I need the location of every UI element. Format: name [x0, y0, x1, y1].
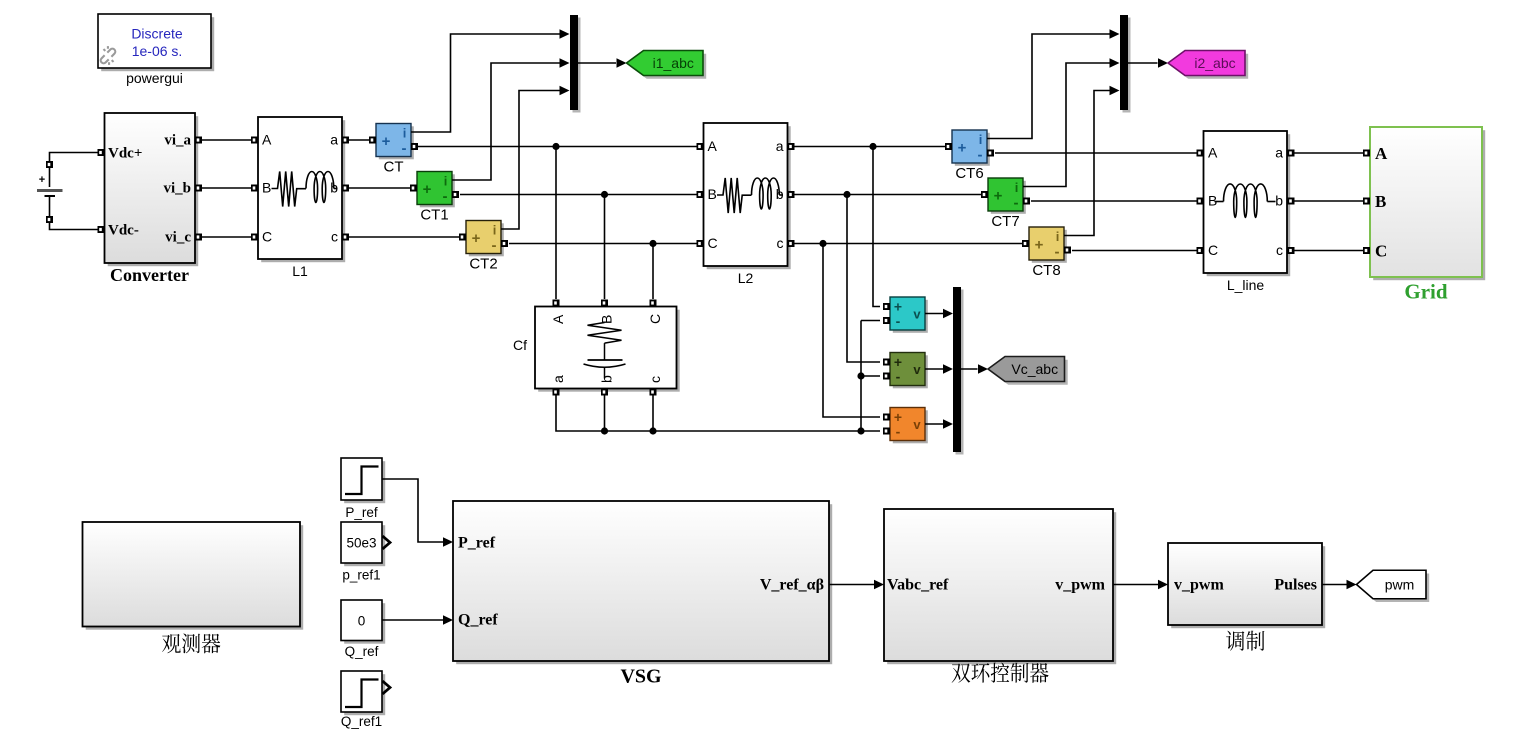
wire tap C down to Cf — [652, 244, 654, 300]
wire Q_ref to VSG — [382, 619, 444, 621]
wire Vb tap to V2+ — [847, 195, 880, 363]
svg-text:v: v — [913, 417, 921, 432]
converter U1 — [108, 116, 199, 266]
current sensor CT2 — [469, 223, 504, 256]
observer subsystem — [86, 525, 304, 630]
svg-text:-: - — [402, 140, 407, 157]
svg-text:i1_abc: i1_abc — [653, 55, 694, 71]
svg-text:c: c — [331, 229, 338, 245]
svg-text:i: i — [493, 223, 497, 238]
observer label GUANCEQI — [162, 634, 181, 653]
svg-text:L_line: L_line — [1227, 277, 1265, 293]
wire L1c to CT2 — [349, 236, 459, 238]
svg-text:-: - — [896, 424, 901, 440]
node neutral c — [649, 427, 656, 434]
svg-text:B: B — [1208, 193, 1217, 209]
svg-text:-: - — [1055, 244, 1060, 261]
svg-text:VSG: VSG — [620, 666, 662, 688]
wire CT7 out to L_line — [1031, 200, 1197, 202]
voltage sensor V2 — [893, 355, 928, 388]
current sensor CT — [379, 126, 414, 159]
node Va tap — [869, 143, 876, 150]
svg-text:A: A — [262, 132, 272, 148]
svg-text:v_pwm: v_pwm — [1174, 577, 1224, 594]
goto tag pwm — [1360, 573, 1430, 602]
svg-text:-: - — [896, 313, 901, 329]
wire Va tap to V1+ — [873, 147, 880, 307]
mux M2 — [1123, 18, 1131, 113]
svg-text:CT: CT — [384, 159, 404, 176]
wire Vc tap to V3+ — [823, 244, 880, 418]
svg-text:c: c — [777, 235, 784, 251]
svg-text:Q_ref1: Q_ref1 — [341, 714, 382, 729]
svg-text:v: v — [913, 362, 921, 377]
node Vb tap — [843, 191, 850, 198]
inductor L_line — [1207, 134, 1291, 276]
wire L1b to CT1 — [349, 187, 410, 189]
svg-text:1e-06 s.: 1e-06 s. — [132, 43, 183, 59]
svg-text:Cf: Cf — [513, 337, 527, 353]
svg-text:+: + — [382, 133, 391, 150]
svg-text:c: c — [1276, 242, 1283, 258]
svg-text:+: + — [423, 181, 432, 198]
wire vi_c to L1 — [202, 236, 251, 238]
svg-text:-: - — [896, 369, 901, 385]
mux M3 — [956, 290, 964, 455]
svg-text:i: i — [403, 126, 407, 141]
wire Vdc- to converter — [50, 219, 98, 230]
svg-text:b: b — [599, 375, 615, 383]
wire L1a to CT — [349, 139, 369, 141]
battery + node — [46, 161, 53, 168]
svg-text:A: A — [1208, 145, 1218, 161]
modulator label TIAOZHI — [1226, 631, 1244, 651]
node Vc tap — [819, 240, 826, 247]
svg-text:A: A — [708, 138, 718, 154]
inductor L1 — [261, 120, 345, 262]
svg-text:C: C — [1208, 242, 1218, 258]
wire L_line c to Grid — [1295, 250, 1364, 252]
current sensor CT1 — [420, 174, 455, 207]
wire L_line a to Grid — [1295, 152, 1364, 154]
inductor L2 — [707, 126, 791, 269]
svg-text:Q_ref: Q_ref — [345, 644, 379, 659]
controller subsystem — [887, 512, 1116, 664]
svg-text:-: - — [492, 237, 497, 254]
controller label SHUANGHUAN — [952, 664, 971, 683]
svg-text:p_ref1: p_ref1 — [342, 568, 380, 583]
svg-text:A: A — [1375, 144, 1388, 163]
svg-text:L2: L2 — [738, 270, 754, 286]
svg-text:vi_b: vi_b — [163, 181, 191, 197]
svg-text:+: + — [958, 140, 967, 157]
node phase A tap — [552, 143, 559, 150]
svg-text:C: C — [647, 314, 663, 324]
svg-text:a: a — [776, 138, 784, 154]
svg-text:Vabc_ref: Vabc_ref — [887, 577, 949, 594]
constant p_ref1 — [344, 525, 385, 566]
svg-text:Discrete: Discrete — [131, 26, 183, 42]
svg-text:B: B — [708, 186, 717, 202]
powergui block — [101, 17, 214, 71]
current sensor CT7 — [991, 181, 1026, 214]
current sensor CT8 — [1032, 230, 1067, 263]
svg-text:0: 0 — [358, 614, 366, 629]
goto tag i2_abc — [1171, 54, 1248, 79]
wire CT6 out to L_line — [995, 152, 1197, 154]
wire vi_a to L1 — [202, 139, 251, 141]
svg-text:CT2: CT2 — [469, 256, 497, 273]
wire CT8 out to L_line — [1072, 250, 1197, 252]
svg-text:A: A — [550, 314, 566, 324]
svg-text:c: c — [647, 376, 663, 383]
svg-text:i: i — [979, 132, 983, 147]
wire P_ref to VSG — [382, 479, 444, 542]
svg-text:Pulses: Pulses — [1274, 577, 1317, 594]
wire tap A down to Cf — [555, 147, 557, 300]
wire L2c to CT8 — [795, 243, 1023, 245]
svg-text:Vdc+: Vdc+ — [108, 146, 142, 162]
wire mux to i1_abc — [578, 62, 616, 64]
svg-text:C: C — [1375, 242, 1387, 261]
svg-text:a: a — [1275, 145, 1283, 161]
svg-text:i: i — [444, 174, 448, 189]
modulator subsystem — [1171, 546, 1325, 628]
wire Vdc+ to converter — [50, 153, 98, 166]
battery - node — [46, 216, 53, 223]
wire CT out to L2 A — [418, 146, 697, 148]
svg-text:CT7: CT7 — [991, 213, 1019, 230]
wire CT i to mux — [411, 34, 561, 132]
wire vi_b to L1 — [202, 187, 251, 189]
wire tap B down to Cf — [604, 195, 606, 300]
V2 output wire — [925, 368, 944, 370]
svg-text:B: B — [1375, 192, 1386, 211]
wire CT2 out to L2 C — [509, 243, 697, 245]
mux M1 — [573, 18, 581, 113]
svg-text:Q_ref: Q_ref — [458, 612, 498, 629]
wire Cf a down — [556, 396, 880, 432]
svg-text:powergui: powergui — [126, 70, 183, 86]
svg-text:Vc_abc: Vc_abc — [1011, 361, 1058, 377]
wire mux to Vc_abc — [961, 368, 978, 370]
goto tag i1_abc — [630, 54, 707, 79]
svg-text:L1: L1 — [292, 263, 308, 279]
svg-text:+: + — [1035, 237, 1044, 254]
node phase C tap — [649, 240, 656, 247]
DC source battery — [49, 166, 51, 187]
node V2 minus — [857, 372, 864, 379]
wire Cf b down — [604, 396, 606, 432]
svg-text:-: - — [978, 147, 983, 164]
wire L2a to CT6 — [795, 146, 946, 148]
voltage sensor V1 — [893, 300, 928, 333]
wire Cf c down — [652, 396, 654, 432]
V1 output wire — [925, 313, 944, 315]
constant Q_ref — [344, 603, 385, 644]
node V3 minus — [857, 427, 864, 434]
wire controller to modulator — [1113, 584, 1159, 586]
svg-text:Vdc-: Vdc- — [108, 223, 139, 239]
svg-text:a: a — [550, 375, 566, 383]
svg-text:i: i — [1056, 229, 1060, 244]
svg-text:V_ref_αβ: V_ref_αβ — [760, 577, 824, 594]
svg-text:vi_c: vi_c — [165, 230, 191, 246]
svg-text:B: B — [262, 180, 271, 196]
wire CT2 i to mux — [501, 91, 561, 230]
svg-text:i: i — [1015, 180, 1019, 195]
svg-text:CT8: CT8 — [1032, 262, 1060, 279]
wire CT8 i to mux — [1064, 91, 1111, 236]
node phase B tap — [601, 191, 608, 198]
svg-text:i2_abc: i2_abc — [1194, 55, 1235, 71]
VSG subsystem — [456, 504, 832, 664]
wire VSG to controller — [829, 584, 875, 586]
svg-text:CT1: CT1 — [420, 207, 448, 224]
capacitor bank Cf — [538, 310, 680, 392]
svg-text:P_ref: P_ref — [458, 535, 496, 552]
svg-text:CT6: CT6 — [955, 165, 983, 182]
svg-text:P_ref: P_ref — [345, 505, 378, 520]
grid subsystem — [1373, 130, 1485, 280]
svg-text:b: b — [1275, 193, 1283, 209]
wire L_line b to Grid — [1295, 200, 1364, 202]
svg-text:+: + — [994, 188, 1003, 205]
wire modulator to pwm — [1322, 584, 1347, 586]
svg-text:C: C — [708, 235, 718, 251]
wire CT7 i to mux — [1023, 63, 1111, 187]
node neutral b — [601, 427, 608, 434]
wire CT6 i to mux — [987, 34, 1111, 139]
svg-text:v: v — [913, 307, 921, 322]
step source Q_ref1 — [344, 674, 385, 715]
svg-text:a: a — [330, 132, 338, 148]
svg-text:pwm: pwm — [1385, 577, 1415, 593]
svg-text:50e3: 50e3 — [346, 536, 376, 551]
svg-text:v_pwm: v_pwm — [1055, 577, 1105, 594]
wire mux to i2_abc — [1128, 62, 1158, 64]
wire CT1 out to L2 B — [460, 194, 697, 196]
step source P_ref — [344, 461, 385, 503]
svg-text:C: C — [262, 229, 272, 245]
voltage sensor V3 — [893, 410, 928, 443]
V3 output wire — [925, 423, 944, 425]
goto tag Vc_abc — [991, 360, 1067, 385]
wire CT1 i to mux — [452, 63, 561, 180]
svg-text:vi_a: vi_a — [164, 133, 191, 149]
wire L2b to CT7 — [795, 194, 982, 196]
wire neutral to V minus rail — [861, 320, 880, 322]
svg-text:-: - — [1014, 195, 1019, 212]
current sensor CT6 — [955, 133, 990, 166]
svg-text:+: + — [472, 230, 481, 247]
svg-text:Grid: Grid — [1404, 280, 1447, 304]
svg-text:-: - — [443, 188, 448, 205]
svg-text:+: + — [39, 174, 45, 186]
svg-text:Converter: Converter — [110, 265, 189, 285]
